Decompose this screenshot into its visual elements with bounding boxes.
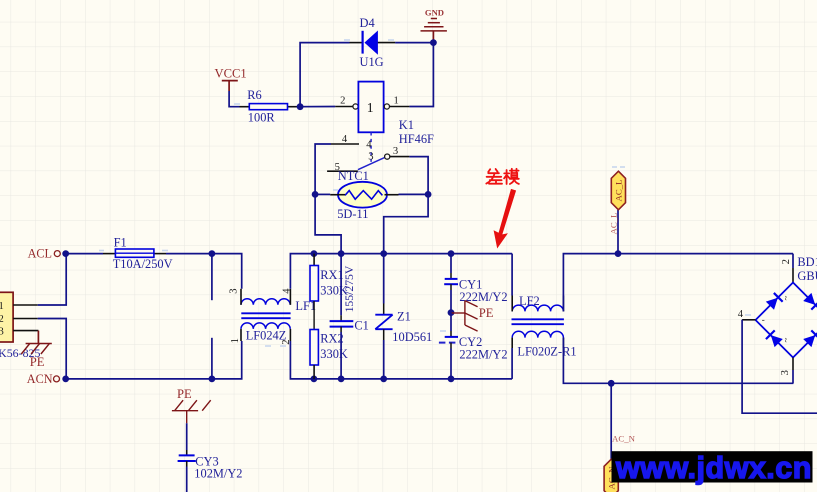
junction bottom stub xyxy=(209,376,216,383)
capacitor C1 xyxy=(330,254,354,379)
annotation arrow xyxy=(494,189,516,249)
svg-text:3: 3 xyxy=(229,288,240,293)
wire VCC1 to R6 xyxy=(229,91,239,107)
svg-text:AC_N: AC_N xyxy=(612,434,636,444)
svg-text:10D561: 10D561 xyxy=(392,330,432,344)
svg-text:3: 3 xyxy=(368,152,373,163)
wire NTC left xyxy=(315,193,330,195)
wire R6 to relay pin 2 xyxy=(297,106,335,108)
watermark www.jdwx.cn xyxy=(612,451,813,482)
svg-text:RX2: RX2 xyxy=(320,331,343,345)
junction R6 node xyxy=(297,103,304,110)
junction NTC right xyxy=(425,191,432,198)
svg-text:4: 4 xyxy=(342,134,348,145)
earth PE (CY) rotated xyxy=(451,301,478,332)
junction NTC left xyxy=(312,191,319,198)
fuse F1 xyxy=(103,249,166,257)
wire LF1 pin2 down to bus xyxy=(290,341,314,379)
svg-text:155/275V: 155/275V xyxy=(343,265,356,312)
svg-text:PE: PE xyxy=(30,355,45,369)
junction C1 bottom xyxy=(338,376,345,383)
wire stub bottom xyxy=(211,338,213,379)
pin 3 xyxy=(792,358,794,371)
resistor R6 xyxy=(240,104,298,110)
connector pin 1 xyxy=(13,304,38,306)
svg-text:LF024Z: LF024Z xyxy=(246,328,287,342)
junction C1 top xyxy=(338,250,345,257)
wire flag AC_L xyxy=(617,210,619,254)
svg-text:4: 4 xyxy=(738,309,744,320)
svg-text:U1G: U1G xyxy=(360,55,384,69)
svg-text:102M/Y2: 102M/Y2 xyxy=(194,467,242,481)
choke LF2 winding bottom xyxy=(512,331,563,337)
diode bottom-left xyxy=(766,330,783,347)
svg-text:RX1: RX1 xyxy=(320,268,343,282)
annotation text CJK chamo (differential mode) hand-drawn xyxy=(486,169,519,184)
relay switch arm xyxy=(358,158,385,170)
diode D4 xyxy=(350,31,396,54)
svg-text:Z1: Z1 xyxy=(397,309,411,323)
resistor RX1 xyxy=(310,254,318,330)
wire AC_N down xyxy=(610,383,612,459)
wire pin3 to PE earth xyxy=(37,331,39,344)
junction AC_L xyxy=(615,250,622,257)
wire CY3 down xyxy=(186,467,188,492)
grip marks (light selection dashes) xyxy=(99,40,751,346)
pin 4 xyxy=(742,319,755,321)
svg-text:PE: PE xyxy=(479,306,494,320)
wire LF1 pin4 up to bus xyxy=(290,254,314,289)
svg-text:ACN: ACN xyxy=(27,372,53,386)
wire LF2 bottom right to bridge xyxy=(563,338,793,384)
bottom bus middle xyxy=(314,378,512,380)
relay switch pin 4 xyxy=(331,143,359,145)
choke LF1 winding bottom xyxy=(241,323,290,329)
svg-text:GBU8: GBU8 xyxy=(797,269,817,283)
connector JK56-825 body xyxy=(0,292,13,342)
svg-text:2: 2 xyxy=(781,259,792,264)
svg-text:2: 2 xyxy=(340,95,345,106)
flag AC_N xyxy=(604,459,618,492)
capacitor CY1 xyxy=(444,254,458,313)
svg-text:PE: PE xyxy=(177,387,192,401)
junction PE tap xyxy=(448,309,455,316)
char 2 mo xyxy=(504,169,519,184)
wire GND trunk down to relay pin 1 xyxy=(409,43,433,107)
bridge diamond xyxy=(756,283,817,358)
junction RX bottom xyxy=(311,376,318,383)
svg-text:ACL: ACL xyxy=(28,247,52,261)
svg-text:1: 1 xyxy=(0,301,4,312)
choke LF1 winding top xyxy=(241,299,290,305)
svg-text:D4: D4 xyxy=(360,16,375,30)
diode top-left xyxy=(766,293,783,310)
svg-text:AC_L: AC_L xyxy=(609,213,619,235)
wire PE to CY3 xyxy=(186,423,188,450)
wire top bus corner down to LF2 xyxy=(511,254,513,296)
wire pin2 to ACN trunk xyxy=(38,319,66,379)
earth PE (connector) xyxy=(21,344,52,355)
wire ACL to fuse xyxy=(66,253,103,255)
svg-text:100R: 100R xyxy=(248,110,276,124)
svg-text:BD1: BD1 xyxy=(797,255,817,269)
junction RX top xyxy=(311,250,318,257)
capacitor CY2 xyxy=(439,313,459,379)
choke LF2 winding top xyxy=(512,305,563,311)
svg-text:5D-11: 5D-11 xyxy=(337,207,368,221)
svg-text:1: 1 xyxy=(394,95,399,106)
svg-text:www.jdwx.cn: www.jdwx.cn xyxy=(615,451,812,485)
wire pin3 to bottom run xyxy=(792,370,794,383)
junction CY top xyxy=(448,250,455,257)
wire NTC right xyxy=(399,193,429,195)
relay switch pin 5 xyxy=(327,170,358,172)
flag AC_L xyxy=(611,171,625,210)
top bus middle xyxy=(314,253,512,255)
svg-text:K1: K1 xyxy=(399,118,414,132)
svg-text:C1: C1 xyxy=(354,319,368,333)
svg-text:3: 3 xyxy=(780,370,791,375)
svg-text:330K: 330K xyxy=(320,347,348,361)
wire pin4 down and right xyxy=(742,320,817,413)
relay K1 coil xyxy=(335,82,409,133)
svg-text:NTC1: NTC1 xyxy=(338,169,369,183)
svg-text:3: 3 xyxy=(393,146,398,157)
junction top stub xyxy=(209,250,216,257)
wire pin4 to left trunk xyxy=(315,144,341,254)
wire ACN bus to LF1 xyxy=(66,341,242,379)
choke LF2 separator xyxy=(512,318,564,320)
wire diode right to GND junction xyxy=(395,42,433,44)
wire pin3 to right trunk xyxy=(384,157,428,254)
wire bus to bridge pin2 xyxy=(792,254,794,268)
choke LF1 pins xyxy=(241,289,290,341)
wire top net from riser to diode xyxy=(300,43,349,107)
capacitor CY3 xyxy=(178,450,196,467)
wire fuse to LF1 corner xyxy=(166,254,242,289)
svg-text:1: 1 xyxy=(230,338,241,343)
connector pin 3 xyxy=(13,330,38,332)
svg-text:222M/Y2: 222M/Y2 xyxy=(459,347,507,361)
diode bottom-right (clipped) xyxy=(803,330,817,347)
choke LF2 pins xyxy=(512,296,563,349)
svg-text:LF2: LF2 xyxy=(519,294,540,308)
relay actuator dashed link xyxy=(370,132,372,163)
diode top-right (clipped) xyxy=(803,293,817,310)
svg-text:R6: R6 xyxy=(247,88,261,102)
svg-text:-: - xyxy=(762,314,765,324)
wire LF2 top right to bridge xyxy=(563,254,793,312)
svg-text:~: ~ xyxy=(781,296,791,301)
wire stub top xyxy=(211,254,213,301)
connector pin 2 xyxy=(13,318,38,320)
wire pin1 to ACL trunk xyxy=(38,254,66,305)
junction ACL xyxy=(62,250,69,257)
char 1 cha xyxy=(486,169,502,184)
power port GND xyxy=(421,8,447,41)
junction ACN xyxy=(62,376,69,383)
thermistor NTC1 xyxy=(330,182,398,208)
svg-text:~: ~ xyxy=(781,338,791,343)
svg-text:GND: GND xyxy=(425,8,444,18)
svg-text:2: 2 xyxy=(0,314,4,325)
varistor Z1 xyxy=(375,254,392,379)
svg-text:T10A/250V: T10A/250V xyxy=(113,257,173,271)
junction AC_N xyxy=(608,380,615,387)
svg-text:4: 4 xyxy=(366,139,372,150)
svg-text:AC_L: AC_L xyxy=(614,180,624,202)
resistor RX2 xyxy=(310,330,318,379)
svg-text:LF020Z-R1: LF020Z-R1 xyxy=(517,344,576,358)
junction Z1 top xyxy=(380,250,387,257)
relay switch pin 3 xyxy=(390,156,410,158)
svg-text:3: 3 xyxy=(0,326,4,337)
wire bottom bus corner up to LF2 xyxy=(511,348,513,379)
svg-text:HF46F: HF46F xyxy=(399,132,434,146)
svg-text:F1: F1 xyxy=(114,235,127,249)
svg-text:VCC1: VCC1 xyxy=(215,67,247,81)
junction Z1 bottom xyxy=(380,376,387,383)
junction CY bottom xyxy=(448,376,455,383)
junction GND node xyxy=(430,39,437,46)
choke LF1 separator xyxy=(241,312,290,314)
svg-text:1: 1 xyxy=(367,100,374,115)
